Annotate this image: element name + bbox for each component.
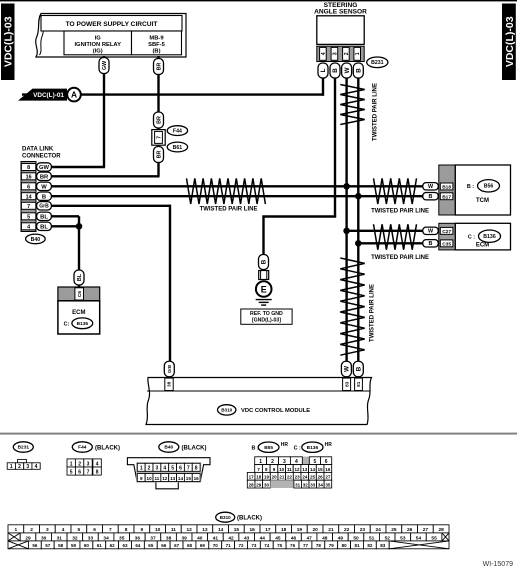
svg-text:57: 57 <box>45 543 51 548</box>
junction B/ECM <box>355 240 362 247</box>
connector oval B231 (sensor) <box>367 57 388 68</box>
svg-text:1: 1 <box>70 461 73 467</box>
svg-text:TWISTED PAIR LINE: TWISTED PAIR LINE <box>370 284 376 342</box>
svg-text:B136: B136 <box>483 234 496 240</box>
svg-text:35: 35 <box>325 483 331 488</box>
svg-text:(BLACK): (BLACK) <box>182 445 207 451</box>
svg-text:MB-9: MB-9 <box>149 35 164 41</box>
svg-text:SBF-5: SBF-5 <box>148 42 166 48</box>
svg-text:81: 81 <box>354 543 360 548</box>
svg-text:60: 60 <box>84 543 90 548</box>
svg-text:6: 6 <box>27 184 30 190</box>
svg-text:40: 40 <box>197 535 203 541</box>
svg-text:71: 71 <box>226 543 232 548</box>
top border line <box>0 0 517 1</box>
data link connector pin 5 wire label BL <box>37 212 52 220</box>
svg-text:6: 6 <box>93 527 96 533</box>
legend F44 pin grid <box>67 459 101 476</box>
svg-text:1: 1 <box>355 52 361 55</box>
twisted pair symbol (DLC pair) <box>187 178 266 204</box>
data link connector pin 16 wire label BR <box>37 172 52 180</box>
wire label B (pin 1) <box>353 63 363 78</box>
svg-text:(BLACK): (BLACK) <box>95 445 120 451</box>
svg-text:53: 53 <box>400 535 406 541</box>
svg-text:(BLACK): (BLACK) <box>237 516 262 522</box>
svg-text:[GND(L)-03]: [GND(L)-03] <box>252 318 281 324</box>
svg-text:BL: BL <box>77 273 83 281</box>
svg-text:GrB: GrB <box>39 204 49 210</box>
svg-text:36: 36 <box>135 535 141 541</box>
svg-text:CONNECTOR: CONNECTOR <box>22 154 61 160</box>
svg-text:B :: B : <box>467 184 474 190</box>
svg-text:56: 56 <box>32 543 38 548</box>
svg-text:5: 5 <box>27 214 30 220</box>
svg-text:3: 3 <box>46 527 49 533</box>
svg-text:21: 21 <box>279 475 285 480</box>
steering angle sensor connector strip <box>317 46 364 61</box>
svg-text:55: 55 <box>431 535 437 541</box>
fuse F44 connector pin 7 <box>152 130 165 146</box>
svg-text:43: 43 <box>244 535 250 541</box>
wire B (CAN) from DLC pin 14 to TCM <box>51 195 424 197</box>
svg-text:B: B <box>42 194 46 200</box>
svg-text:12: 12 <box>295 467 301 472</box>
svg-text:22: 22 <box>344 527 350 533</box>
legend B55/B136 pin grid <box>247 457 331 489</box>
svg-text:66: 66 <box>161 543 167 548</box>
junction BL wires <box>76 223 83 230</box>
svg-text:19: 19 <box>264 475 270 480</box>
svg-text:34: 34 <box>318 483 324 488</box>
svg-text:2: 2 <box>78 461 81 467</box>
ECM connector strip pins C27 C35 <box>439 223 456 250</box>
svg-text:27: 27 <box>325 475 331 480</box>
svg-text:B310: B310 <box>221 408 232 413</box>
svg-text:5: 5 <box>70 469 73 475</box>
svg-text:ANGLE SENSOR: ANGLE SENSOR <box>314 9 367 16</box>
svg-text:29: 29 <box>256 483 262 488</box>
svg-text:37: 37 <box>150 535 156 541</box>
data link connector pin 6 wire label W <box>37 182 52 190</box>
wire L from sensor pin 4 to bus A <box>322 78 324 96</box>
svg-text:9: 9 <box>141 527 144 533</box>
junction W/TCM <box>343 183 350 190</box>
svg-text:5: 5 <box>171 466 174 472</box>
svg-text:1: 1 <box>140 466 143 472</box>
svg-text:10: 10 <box>155 527 161 533</box>
svg-text:A: A <box>71 90 77 100</box>
svg-text:23: 23 <box>360 527 366 533</box>
wire B from sensor pin 3 to ground <box>262 78 336 256</box>
svg-text:C :: C : <box>468 234 475 240</box>
svg-text:49: 49 <box>338 535 344 541</box>
svg-text:GrB: GrB <box>167 365 172 373</box>
svg-text:7: 7 <box>156 136 162 139</box>
wire BR from SBF-5 down through fuse F44 <box>51 56 160 176</box>
svg-text:8: 8 <box>27 165 30 171</box>
svg-text:17: 17 <box>265 527 271 533</box>
svg-text:VDC(L)-03: VDC(L)-03 <box>504 16 516 67</box>
svg-text:3: 3 <box>87 461 90 467</box>
svg-text:W: W <box>41 184 47 190</box>
TCM body with oval B56 <box>455 165 510 215</box>
wire W from sensor pin 2 down to VDC control module <box>345 78 347 378</box>
svg-text:16: 16 <box>194 476 200 481</box>
svg-text:77: 77 <box>303 543 309 548</box>
svg-text:54: 54 <box>416 535 422 541</box>
svg-text:VDC(L)-03: VDC(L)-03 <box>3 16 15 67</box>
svg-text:33: 33 <box>88 535 94 541</box>
wire W (CAN) to ECM <box>347 230 424 232</box>
svg-text:ECM: ECM <box>476 242 489 248</box>
legend B310 pin grid row 3 <box>8 541 449 549</box>
svg-text:80: 80 <box>342 543 348 548</box>
wire label GW <box>99 58 109 74</box>
svg-text:2: 2 <box>18 464 21 470</box>
wire label GrB (to VDC module) <box>164 361 174 377</box>
right title bar VDC(L)-03 <box>502 4 516 81</box>
svg-text:28: 28 <box>249 483 255 488</box>
TCM connector strip pins B18 B17 <box>439 165 456 215</box>
svg-text:14: 14 <box>178 476 184 481</box>
ground point E <box>256 281 272 297</box>
svg-text:25: 25 <box>391 527 397 533</box>
svg-text:L: L <box>320 68 327 72</box>
svg-text:42: 42 <box>228 535 234 541</box>
wire label W (ECM) <box>423 227 439 234</box>
svg-text:81: 81 <box>356 381 361 387</box>
svg-text:41: 41 <box>213 535 219 541</box>
svg-text:2: 2 <box>30 527 33 533</box>
svg-text:47: 47 <box>306 535 312 541</box>
svg-text:25: 25 <box>310 475 316 480</box>
svg-text:B40: B40 <box>164 445 173 451</box>
wire label BR (middle, above fuse) <box>154 112 164 128</box>
wire label B (ECM) <box>423 240 439 247</box>
ground symbol hatching <box>256 300 272 306</box>
svg-text:13: 13 <box>302 467 308 472</box>
svg-text:64: 64 <box>135 543 141 548</box>
twisted pair symbol (ECM pair) <box>374 224 417 250</box>
svg-text:14: 14 <box>218 527 224 533</box>
svg-text:E: E <box>261 284 267 294</box>
svg-text:DATA LINK: DATA LINK <box>22 147 54 153</box>
svg-text:72: 72 <box>239 543 245 548</box>
svg-text:B56: B56 <box>484 184 494 190</box>
wire label B (pin 3) <box>330 63 340 78</box>
svg-text:16: 16 <box>249 527 255 533</box>
svg-text:4: 4 <box>27 224 30 230</box>
svg-text:13: 13 <box>202 527 208 533</box>
legend oval B310 <box>216 512 235 522</box>
svg-text:15: 15 <box>234 527 240 533</box>
svg-text:8: 8 <box>195 466 198 472</box>
svg-text:39: 39 <box>182 535 188 541</box>
svg-text:W: W <box>344 366 351 372</box>
svg-text:15: 15 <box>186 476 192 481</box>
steering angle sensor body <box>317 16 364 45</box>
svg-text:HR: HR <box>281 442 289 448</box>
svg-text:BR: BR <box>156 116 162 124</box>
svg-text:67: 67 <box>174 543 180 548</box>
svg-text:W: W <box>344 67 351 73</box>
svg-text:12: 12 <box>186 527 192 533</box>
svg-text:20: 20 <box>272 475 278 480</box>
wire label L (pin 4) <box>318 63 328 78</box>
svg-text:68: 68 <box>187 543 193 548</box>
wire GW from ignition relay down to node, then to data link connector <box>51 56 105 167</box>
svg-text:28: 28 <box>438 527 444 533</box>
svg-text:51: 51 <box>369 535 375 541</box>
svg-text:70: 70 <box>213 543 219 548</box>
svg-text:HR: HR <box>325 442 333 448</box>
svg-text:73: 73 <box>251 543 257 548</box>
svg-text:4: 4 <box>321 52 327 55</box>
legend oval F44 <box>72 442 92 452</box>
svg-text:50: 50 <box>353 535 359 541</box>
svg-text:TWISTED PAIR LINE: TWISTED PAIR LINE <box>373 83 379 141</box>
wire B (CAN) to ECM <box>358 242 424 244</box>
svg-text:B: B <box>332 68 339 73</box>
svg-text:B: B <box>356 366 363 371</box>
bus line to VDC(L)-01 <box>22 93 323 95</box>
svg-text:63: 63 <box>123 543 129 548</box>
svg-text:6: 6 <box>78 469 81 475</box>
svg-text:B231: B231 <box>371 60 384 66</box>
svg-text:38: 38 <box>167 381 172 387</box>
svg-text:22: 22 <box>287 475 293 480</box>
svg-text:C :: C : <box>294 446 301 452</box>
wire label B (to VDC module) <box>353 361 363 377</box>
wire label W (pin 2) <box>342 63 352 78</box>
legend B310 pin grid row 1 <box>8 525 449 533</box>
svg-text:4: 4 <box>35 464 38 470</box>
svg-text:C6: C6 <box>77 291 83 297</box>
wire label W (TCM) <box>423 183 439 190</box>
separator line <box>0 433 517 435</box>
svg-text:B40: B40 <box>31 237 41 243</box>
svg-text:B136: B136 <box>77 321 89 327</box>
svg-text:F44: F44 <box>173 128 182 134</box>
svg-text:9: 9 <box>140 476 143 481</box>
svg-text:83: 83 <box>344 381 349 387</box>
svg-text:VDC(L)-01: VDC(L)-01 <box>33 92 64 99</box>
svg-text:69: 69 <box>200 543 206 548</box>
data link connector pin 7 wire label GrB <box>37 202 52 210</box>
svg-text:21: 21 <box>328 527 334 533</box>
wire BL from DLC pin 4 <box>51 225 80 227</box>
svg-text:12: 12 <box>162 476 168 481</box>
legend oval B40 <box>159 442 179 452</box>
svg-text:48: 48 <box>322 535 328 541</box>
svg-text:44: 44 <box>260 535 266 541</box>
junction B/TCM <box>355 193 362 200</box>
data link connector pin 14 wire label B <box>37 192 52 200</box>
svg-text:33: 33 <box>310 483 316 488</box>
svg-text:34: 34 <box>103 535 109 541</box>
VDC control module body B310 <box>146 378 372 425</box>
ref to gnd note box <box>241 309 292 324</box>
svg-text:29: 29 <box>25 535 31 541</box>
svg-text:B: B <box>429 194 433 200</box>
legend B40 connector outline <box>127 458 210 489</box>
svg-text:IGNITION RELAY: IGNITION RELAY <box>74 42 121 48</box>
legend B310 pin grid row 2 <box>8 533 449 541</box>
svg-text:VDC CONTROL MODULE: VDC CONTROL MODULE <box>241 408 310 414</box>
svg-text:5: 5 <box>78 527 81 533</box>
svg-text:11: 11 <box>154 476 159 481</box>
svg-text:61: 61 <box>97 543 103 548</box>
svg-text:C27: C27 <box>442 229 451 235</box>
wire label BL (to ECM) <box>74 270 84 285</box>
ground connector symbol <box>259 271 269 280</box>
svg-text:WI-15079: WI-15079 <box>483 561 513 568</box>
svg-text:B: B <box>261 259 268 264</box>
svg-text:45: 45 <box>275 535 281 541</box>
twisted pair symbol (TCM pair) <box>374 178 417 204</box>
data link connector pin 4 wire label BL <box>37 222 52 230</box>
svg-text:76: 76 <box>290 543 296 548</box>
svg-text:19: 19 <box>297 527 303 533</box>
svg-text:4: 4 <box>96 461 99 467</box>
svg-text:TO POWER SUPPLY CIRCUIT: TO POWER SUPPLY CIRCUIT <box>66 21 158 28</box>
svg-text:8: 8 <box>96 469 99 475</box>
svg-text:30: 30 <box>264 483 270 488</box>
svg-text:8: 8 <box>125 527 128 533</box>
svg-text:TCM: TCM <box>476 198 489 204</box>
power supply banner: TO POWER SUPPLY CIRCUIT <box>36 14 186 58</box>
svg-text:18: 18 <box>281 527 287 533</box>
svg-text:IG: IG <box>95 35 102 41</box>
wire W (CAN) from DLC pin 6 to TCM <box>51 185 424 187</box>
svg-text:4: 4 <box>62 527 65 533</box>
wire label BR (lower, below fuse) <box>154 147 164 163</box>
twisted pair symbol (vertical, upper) <box>340 85 364 125</box>
svg-text:TWISTED PAIR LINE: TWISTED PAIR LINE <box>200 207 258 213</box>
svg-text:78: 78 <box>316 543 322 548</box>
svg-text:58: 58 <box>58 543 64 548</box>
svg-text:C:: C: <box>64 321 70 327</box>
svg-text:7: 7 <box>109 527 112 533</box>
svg-text:GW: GW <box>39 165 50 171</box>
svg-text:B231: B231 <box>18 445 30 451</box>
svg-text:24: 24 <box>375 527 381 533</box>
svg-text:B17: B17 <box>442 194 451 200</box>
wire BL from DLC pin 5 <box>51 215 79 217</box>
svg-text:65: 65 <box>148 543 154 548</box>
connector oval F44 <box>167 126 187 136</box>
svg-text:20: 20 <box>312 527 318 533</box>
svg-text:14: 14 <box>310 467 316 472</box>
svg-text:BL: BL <box>40 224 48 230</box>
svg-text:14: 14 <box>26 194 32 200</box>
svg-text:C35: C35 <box>442 241 451 247</box>
svg-text:BL: BL <box>40 214 48 220</box>
svg-text:2: 2 <box>344 52 350 55</box>
svg-text:1: 1 <box>10 464 13 470</box>
node A circle <box>67 88 81 102</box>
connector oval B40 (data link) <box>26 234 46 244</box>
flag label VDC(L)-01 <box>18 89 67 101</box>
svg-text:35: 35 <box>119 535 125 541</box>
twisted pair symbol (vertical, lower) <box>340 258 364 355</box>
connector oval B61 <box>167 142 187 152</box>
svg-text:27: 27 <box>423 527 429 533</box>
svg-text:B55: B55 <box>264 445 273 451</box>
svg-text:26: 26 <box>318 475 324 480</box>
svg-text:74: 74 <box>264 543 270 548</box>
svg-text:ECM: ECM <box>72 310 85 316</box>
svg-text:(B): (B) <box>152 49 160 55</box>
svg-text:3: 3 <box>156 466 159 472</box>
svg-text:3: 3 <box>26 464 29 470</box>
svg-text:16: 16 <box>325 467 331 472</box>
wire B from sensor pin 1 down to VDC control module <box>357 78 359 378</box>
svg-text:24: 24 <box>302 475 308 480</box>
svg-text:BR: BR <box>156 63 162 71</box>
svg-text:B18: B18 <box>442 185 451 191</box>
svg-text:46: 46 <box>291 535 297 541</box>
svg-text:83: 83 <box>380 543 386 548</box>
svg-text:10: 10 <box>279 467 285 472</box>
left title bar VDC(L)-03 <box>1 4 15 81</box>
svg-text:23: 23 <box>295 475 301 480</box>
svg-text:B310: B310 <box>220 515 231 520</box>
wire GrB from DLC pin 7 to VDC control module <box>51 205 170 378</box>
svg-text:B136: B136 <box>307 445 319 451</box>
svg-text:62: 62 <box>110 543 116 548</box>
ECM body with oval B136 <box>455 223 510 250</box>
data link connector pin 8 wire label GW <box>37 163 52 171</box>
svg-text:32: 32 <box>72 535 78 541</box>
svg-text:52: 52 <box>385 535 391 541</box>
legend B231 pin grid <box>7 459 40 470</box>
legend B40 pin grid <box>136 462 201 482</box>
svg-text:B61: B61 <box>173 145 183 151</box>
svg-text:16: 16 <box>26 174 32 180</box>
svg-text:15: 15 <box>318 467 324 472</box>
junction W/ECM <box>343 228 350 235</box>
svg-text:7: 7 <box>187 466 190 472</box>
svg-text:79: 79 <box>329 543 335 548</box>
svg-text:6: 6 <box>179 466 182 472</box>
svg-text:32: 32 <box>303 483 309 488</box>
svg-text:(IG): (IG) <box>93 49 103 55</box>
svg-text:30: 30 <box>41 535 47 541</box>
svg-text:F44: F44 <box>78 445 87 451</box>
svg-text:B: B <box>356 68 363 73</box>
svg-text:REF. TO GND: REF. TO GND <box>250 311 283 317</box>
svg-text:31: 31 <box>57 535 63 541</box>
svg-text:75: 75 <box>277 543 283 548</box>
svg-text:TWISTED PAIR LINE: TWISTED PAIR LINE <box>371 255 429 261</box>
ECM (left) body with oval B136 <box>58 301 100 334</box>
svg-text:31: 31 <box>295 483 301 488</box>
svg-text:BR: BR <box>156 151 162 159</box>
svg-text:TWISTED PAIR LINE: TWISTED PAIR LINE <box>371 209 429 215</box>
svg-text:11: 11 <box>171 527 176 533</box>
wire label BR (upper) <box>154 59 164 75</box>
svg-text:59: 59 <box>71 543 77 548</box>
ECM (left) connector strip with pin C6 <box>58 287 100 301</box>
svg-text:1: 1 <box>15 527 18 533</box>
svg-text:BR: BR <box>40 174 49 180</box>
svg-text:7: 7 <box>27 204 30 210</box>
svg-text:3: 3 <box>332 52 338 55</box>
legend oval B231 <box>13 442 33 452</box>
svg-text:82: 82 <box>367 543 373 548</box>
svg-text:13: 13 <box>170 476 176 481</box>
